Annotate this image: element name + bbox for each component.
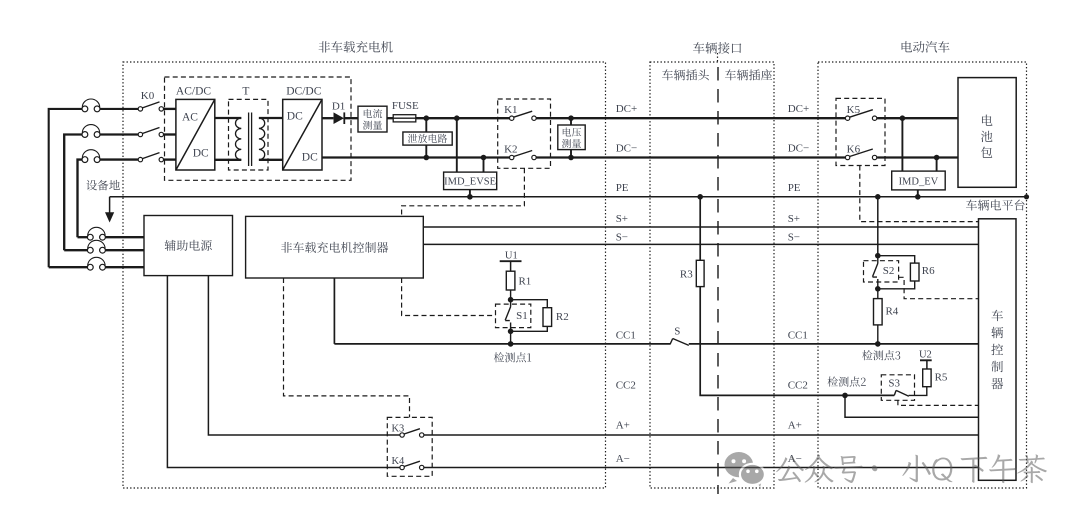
wire DC+ K1 to K5 bbox=[536, 117, 845, 119]
off-board charger frame (dotted) bbox=[123, 62, 606, 488]
svg-text:K6: K6 bbox=[847, 144, 861, 156]
svg-text:DC/DC: DC/DC bbox=[286, 86, 321, 98]
vehicle interface frame (dotted) bbox=[650, 62, 774, 488]
resistor R4 bbox=[874, 299, 883, 325]
svg-text:S: S bbox=[674, 326, 680, 338]
svg-text:S1: S1 bbox=[516, 310, 528, 322]
svg-text:S−: S− bbox=[788, 232, 800, 244]
wire aux row 2 bbox=[64, 249, 144, 251]
switch K0 pole 2 bbox=[138, 128, 163, 137]
switch K3 bbox=[400, 429, 424, 437]
label K3 bbox=[391, 424, 404, 435]
label 车辆插头 bbox=[662, 69, 709, 80]
svg-text:DC: DC bbox=[302, 152, 318, 164]
svg-text:R3: R3 bbox=[680, 269, 693, 281]
net label CC1 right bbox=[788, 329, 808, 341]
node IMD_EV DC+ tap bbox=[900, 115, 906, 121]
diode D1 bbox=[334, 112, 345, 124]
switch frame S2 (dashed) bbox=[864, 261, 899, 282]
watermark text 公众号·小Q下午茶 bbox=[776, 454, 1047, 483]
svg-text:S3: S3 bbox=[888, 378, 900, 390]
svg-text:IMD_EVSE: IMD_EVSE bbox=[444, 177, 496, 188]
wire IMD_EV DC- drop bbox=[936, 158, 938, 172]
svg-text:DC: DC bbox=[193, 148, 209, 160]
svg-text:S2: S2 bbox=[883, 265, 895, 277]
svg-text:CC1: CC1 bbox=[616, 329, 636, 341]
connector L1 bbox=[82, 99, 100, 112]
wire current-meter to FUSE bbox=[387, 117, 393, 119]
resistor R6 branch wire bbox=[878, 256, 915, 289]
svg-text:R5: R5 bbox=[935, 371, 948, 383]
net label DC+ right bbox=[788, 103, 809, 115]
label U2 bbox=[919, 349, 932, 360]
node S1 top bbox=[508, 297, 514, 303]
svg-text:PE: PE bbox=[616, 182, 629, 194]
wire PE to R3 bbox=[699, 197, 701, 260]
transformer T primary wire bbox=[215, 117, 242, 119]
svg-text:S−: S− bbox=[616, 232, 628, 244]
control line S2 to vehicle controller (dashed) bbox=[899, 277, 979, 298]
svg-text:AC/DC: AC/DC bbox=[176, 86, 211, 98]
ground arrow bbox=[105, 212, 114, 222]
label S1 bbox=[516, 310, 528, 322]
net label CC1 left bbox=[616, 329, 636, 341]
node S2 bottom bbox=[875, 286, 881, 292]
switch frame S1 (dashed) bbox=[496, 304, 531, 328]
label DC (DCDC in) bbox=[287, 111, 303, 123]
wire IMD_EV to PE bbox=[917, 190, 919, 197]
vehicle controller box 车辆控制器 bbox=[979, 219, 1017, 481]
wire controller to CC1 bbox=[333, 278, 335, 344]
switch K0 pole 3 bbox=[138, 153, 163, 162]
transformer T primary wire low bbox=[215, 159, 242, 161]
label K4 bbox=[391, 456, 405, 467]
connector aux 1 bbox=[87, 227, 105, 240]
label K1 bbox=[504, 104, 517, 116]
battery pack box 电池包 bbox=[958, 78, 1016, 188]
node S1 bottom bbox=[508, 329, 514, 335]
svg-text:DC+: DC+ bbox=[788, 103, 809, 115]
wire K0-3 to AC/DC bbox=[164, 158, 176, 160]
svg-text:U1: U1 bbox=[505, 250, 518, 261]
svg-text:A+: A+ bbox=[788, 420, 802, 432]
label 检测点3 bbox=[862, 350, 900, 360]
svg-text:FUSE: FUSE bbox=[392, 100, 419, 112]
net label A+ right bbox=[788, 420, 802, 432]
label 设备地 bbox=[86, 180, 120, 191]
wire L3 to aux row1 bbox=[78, 236, 88, 238]
connector aux 2 bbox=[87, 240, 105, 253]
wire CC2 branch to vehicle controller bbox=[845, 395, 979, 417]
wire aux row 1 bbox=[106, 236, 144, 238]
wire S- bus bbox=[423, 243, 978, 245]
net label CC2 left bbox=[616, 380, 636, 392]
label S3 bbox=[888, 378, 900, 390]
label 电压 bbox=[563, 127, 581, 136]
wire S1 to CC1 bbox=[510, 331, 512, 344]
label 电动汽车 bbox=[902, 41, 950, 53]
switch S2 bbox=[873, 256, 878, 289]
label R5 bbox=[935, 371, 948, 383]
wire PE to S2 bbox=[877, 197, 879, 256]
voltage measurement box 电压测量 bbox=[558, 125, 585, 150]
connector L3 bbox=[82, 150, 100, 163]
equipment ground drop bbox=[109, 197, 111, 213]
net label S+ right bbox=[788, 213, 800, 225]
wire K0-2 to AC/DC bbox=[164, 133, 176, 135]
label 电流 bbox=[364, 109, 382, 118]
control line S3 to vehicle controller (dashed) bbox=[898, 400, 979, 405]
label K0 bbox=[141, 90, 155, 102]
transformer T frame (dashed) bbox=[229, 99, 269, 170]
label IMD_EV bbox=[899, 176, 939, 187]
svg-text:R4: R4 bbox=[885, 306, 898, 318]
supply U2 bbox=[920, 360, 932, 368]
node PE plug R3 bbox=[697, 194, 703, 200]
transformer T core bbox=[249, 113, 252, 167]
svg-text:AC: AC bbox=[182, 112, 198, 124]
resistor R1 bbox=[506, 271, 515, 290]
node S2 top bbox=[875, 253, 881, 259]
svg-text:K3: K3 bbox=[391, 424, 404, 435]
wire S2 to R4 bbox=[877, 289, 879, 299]
switch frame S3 (dashed) bbox=[881, 375, 914, 401]
watermark WeChat icon bbox=[725, 452, 765, 487]
switch K4 bbox=[400, 461, 424, 469]
wire DC- DCDC to K2 bbox=[322, 156, 510, 158]
label IMD_EVSE bbox=[444, 177, 496, 188]
wire A- bus bbox=[424, 467, 979, 469]
svg-text:PE: PE bbox=[788, 182, 801, 194]
node PE EV branch bbox=[875, 194, 881, 200]
transformer T secondary wires bbox=[259, 118, 283, 160]
svg-text:IMD_EV: IMD_EV bbox=[899, 176, 939, 187]
charger controller box 非车载充电机控制器 bbox=[246, 216, 424, 278]
svg-text:S+: S+ bbox=[788, 213, 800, 225]
label 车辆电平台 bbox=[966, 200, 1024, 211]
net label A+ left bbox=[616, 420, 630, 432]
net label DC- left bbox=[616, 143, 637, 155]
node PE IMD_EV bbox=[915, 194, 921, 200]
label 检测点1 bbox=[494, 352, 531, 362]
transformer T primary coil bbox=[235, 118, 241, 160]
wire CC1 bus right bbox=[689, 343, 979, 345]
fuse FUSE bbox=[393, 115, 416, 122]
switch S (plug latch) bbox=[670, 339, 689, 346]
wire to discharge circuit bbox=[425, 118, 427, 132]
svg-text:K0: K0 bbox=[141, 90, 155, 102]
switch K6 bbox=[845, 149, 876, 160]
resistor R3 bbox=[696, 260, 704, 286]
wire aux row 3 bbox=[49, 266, 144, 268]
net label A- right bbox=[788, 453, 802, 465]
wire DC+ to K1 bbox=[416, 117, 510, 119]
switch K5 bbox=[845, 110, 876, 121]
label U1 bbox=[505, 250, 518, 261]
label 测量 bbox=[363, 121, 382, 130]
wire IMD_EV DC+ drop bbox=[901, 118, 903, 171]
svg-text:K5: K5 bbox=[847, 104, 861, 116]
node IMD_EVSE DC+ tap bbox=[454, 115, 460, 121]
label 非车载充电机 bbox=[319, 41, 393, 53]
net label S- right bbox=[788, 232, 800, 244]
wire discharge to DC- bbox=[425, 145, 427, 157]
net label S+ left bbox=[616, 213, 628, 225]
wire DCDC to D1 bbox=[322, 117, 333, 119]
svg-text:D1: D1 bbox=[332, 101, 345, 113]
supply U1 bbox=[500, 261, 522, 271]
wire DC+ to battery bbox=[877, 117, 958, 119]
wire CC2 to S3 bbox=[845, 394, 894, 396]
label R1 bbox=[518, 276, 531, 288]
discharge circuit box 泄放电路 bbox=[403, 132, 452, 145]
interface plug/socket divider (dashed) bbox=[717, 53, 720, 494]
wire IMD_EVSE to PE bbox=[469, 190, 471, 197]
net label A- left bbox=[616, 453, 630, 465]
contactor frame K1 K2 (dashed) bbox=[498, 99, 551, 168]
wire PE bus bbox=[110, 196, 1027, 198]
label 车辆控制器 bbox=[991, 310, 1003, 390]
contactor frame K5 K6 (dashed) bbox=[836, 98, 885, 165]
wire CC1 bus left bbox=[334, 343, 670, 345]
label AC/DC bbox=[176, 86, 211, 98]
wire phase L3 bbox=[78, 160, 139, 238]
connector L2 bbox=[82, 125, 100, 138]
wire A+ bus bbox=[424, 434, 979, 436]
label 电池包 bbox=[981, 115, 993, 158]
svg-text:S+: S+ bbox=[616, 213, 628, 225]
svg-text:DC−: DC− bbox=[788, 143, 809, 155]
label 测量 bbox=[562, 139, 581, 148]
connector aux 3 bbox=[87, 257, 105, 270]
resistor R2 bbox=[543, 308, 552, 327]
wire aux supply to A+ bbox=[208, 276, 400, 435]
control line to S1 (dashed) bbox=[402, 278, 496, 316]
net label PE left bbox=[616, 182, 629, 194]
svg-text:K4: K4 bbox=[391, 456, 405, 467]
label 辅助电源 bbox=[165, 240, 212, 251]
wire phase L2 bbox=[64, 135, 138, 251]
resistor R5 bbox=[923, 369, 931, 387]
net label DC- right bbox=[788, 143, 809, 155]
label S bbox=[674, 326, 680, 338]
resistor R2 branch wire bbox=[511, 300, 548, 332]
label DC (DCDC out) bbox=[302, 152, 318, 164]
svg-text:U2: U2 bbox=[919, 349, 932, 360]
svg-text:K2: K2 bbox=[504, 143, 517, 155]
svg-text:DC+: DC+ bbox=[616, 103, 637, 115]
label 车辆接口 bbox=[693, 42, 741, 54]
AC/DC converter U-ACDC bbox=[176, 99, 215, 170]
label T bbox=[242, 86, 249, 98]
node detection point 2 bbox=[842, 393, 848, 399]
control line to K3K4 (dashed) bbox=[284, 278, 410, 417]
label DC (ACDC) bbox=[193, 148, 209, 160]
svg-text:T: T bbox=[242, 86, 249, 98]
current measurement box 电流测量 bbox=[358, 106, 387, 132]
insulation monitor IMD_EV bbox=[892, 171, 946, 190]
auxiliary power box 辅助电源 bbox=[144, 216, 233, 276]
control line K5K6 to vehicle controller (dashed) bbox=[860, 166, 979, 222]
wire D1 to current-meter bbox=[344, 117, 358, 119]
wire aux supply to A- bbox=[167, 276, 400, 468]
label R4 bbox=[885, 306, 898, 318]
svg-text:R2: R2 bbox=[556, 311, 569, 323]
wire DC- to IMD_EVSE bbox=[483, 158, 485, 173]
label R3 bbox=[680, 269, 693, 281]
switch K2 bbox=[510, 151, 537, 160]
node voltmeter DC- bbox=[568, 155, 574, 161]
svg-text:R1: R1 bbox=[518, 276, 531, 288]
node detection point 1 bbox=[508, 341, 514, 347]
label 检测点2 bbox=[828, 377, 866, 387]
node PE end bbox=[1024, 194, 1029, 199]
label R6 bbox=[922, 265, 935, 277]
label K5 bbox=[847, 104, 861, 116]
node IMD_EVSE DC- tap bbox=[481, 155, 487, 161]
net label PE right bbox=[788, 182, 801, 194]
control line charger-controller to K1K2 (dashed) bbox=[402, 168, 525, 216]
svg-text:A−: A− bbox=[616, 453, 630, 465]
node discharge bottom bbox=[424, 155, 430, 161]
node PE IMD_EVSE bbox=[467, 194, 473, 200]
node IMD_EV DC- tap bbox=[934, 155, 940, 161]
svg-text:K1: K1 bbox=[504, 104, 517, 116]
svg-text:CC2: CC2 bbox=[616, 380, 636, 392]
svg-text:CC2: CC2 bbox=[788, 380, 808, 392]
wire S+ bus bbox=[423, 226, 978, 228]
svg-text:R6: R6 bbox=[922, 265, 935, 277]
switch S1 bbox=[505, 300, 510, 332]
wire voltmeter taps bbox=[570, 118, 572, 157]
converter unit frame (dashed) bbox=[165, 77, 352, 180]
wire DC- K2 to K6 bbox=[536, 156, 845, 158]
svg-text:DC−: DC− bbox=[616, 143, 637, 155]
wire K0-1 to AC/DC bbox=[164, 108, 176, 110]
label K6 bbox=[847, 144, 861, 156]
net label DC+ left bbox=[616, 103, 637, 115]
switch K1 bbox=[510, 111, 537, 120]
DC/DC converter U-DCDC bbox=[283, 99, 322, 170]
wire DC- to battery bbox=[877, 156, 958, 158]
label DC/DC bbox=[286, 86, 321, 98]
node discharge top bbox=[424, 115, 430, 121]
wire R4 to CC1 bbox=[877, 325, 879, 344]
resistor R6 bbox=[910, 263, 919, 281]
net label S- left bbox=[616, 232, 628, 244]
net label CC2 right bbox=[788, 380, 808, 392]
wire phase L1 bbox=[49, 109, 139, 267]
contactor frame K3 K4 (dashed) bbox=[387, 417, 432, 476]
label D1 bbox=[332, 101, 345, 113]
label AC bbox=[182, 112, 198, 124]
wire R5 to S3 bbox=[909, 387, 927, 396]
label R2 bbox=[556, 311, 569, 323]
label 车辆插座 bbox=[725, 69, 772, 80]
wire DC+ to IMD_EVSE bbox=[456, 118, 458, 172]
node voltmeter DC+ bbox=[568, 115, 574, 121]
electric vehicle frame (dotted) bbox=[818, 62, 1027, 488]
switch K0 pole 1 bbox=[138, 102, 163, 111]
svg-text:DC: DC bbox=[287, 111, 303, 123]
label 泄放电路 bbox=[408, 134, 447, 143]
label 非车载充电机控制器 bbox=[281, 242, 388, 253]
switch S3 bbox=[894, 390, 909, 396]
label FUSE bbox=[392, 100, 419, 112]
transformer T secondary coil bbox=[259, 118, 265, 160]
svg-text:A+: A+ bbox=[616, 420, 630, 432]
wire R1 to S1 bbox=[510, 290, 512, 300]
insulation monitor IMD_EVSE bbox=[444, 172, 497, 190]
label K2 bbox=[504, 143, 517, 155]
node detection point 3 bbox=[875, 341, 881, 347]
label S2 bbox=[883, 265, 895, 277]
svg-text:CC1: CC1 bbox=[788, 329, 808, 341]
wire R3 to CC2 bbox=[700, 287, 845, 396]
